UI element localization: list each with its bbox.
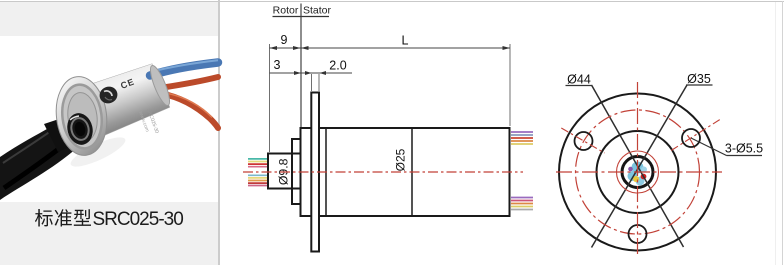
rotor/stator divider + extension line: [300, 4, 302, 128]
red inner circle: [617, 151, 659, 193]
product photo: [0, 60, 218, 200]
caption chinese glyphs 标准型: [35, 209, 91, 227]
black cable: [0, 120, 78, 200]
Ø35 underline: [686, 84, 713, 86]
hole top-right: [682, 129, 700, 147]
flange extension line right: [318, 74, 320, 91]
red radial right hole: [671, 118, 722, 150]
dimension line 3 / 2.0: [270, 72, 353, 74]
arrow 2.0 right: [320, 71, 327, 75]
arrow 2.0 left: [305, 71, 312, 75]
wire bundle dots: [628, 162, 648, 186]
right wires lower: [511, 198, 533, 210]
front view drawing: [556, 72, 763, 256]
cylinder body: [76, 64, 170, 139]
red vertical center line: [637, 82, 639, 256]
red wire lower: [161, 94, 218, 129]
dimension line 9 / L: [270, 47, 511, 49]
dark hub bearing: [64, 110, 96, 147]
hub circle: [622, 157, 653, 188]
arrow right L: [503, 46, 511, 50]
svg-text:Ø35: Ø35: [687, 72, 711, 86]
rotor/stator underline: [273, 16, 330, 18]
extension line right: [509, 44, 511, 126]
left wires upper: [248, 159, 268, 167]
blue wire: [150, 63, 218, 76]
flange extension line left: [311, 74, 313, 91]
Ø44 underline: [566, 85, 593, 87]
outer circle Ø44: [559, 94, 716, 251]
body outline: [301, 128, 510, 216]
hole top-left: [575, 132, 593, 150]
svg-text:Ø44: Ø44: [567, 73, 591, 87]
leader 3-Ø5.5: [691, 138, 727, 156]
arrow right 9: [293, 46, 301, 50]
hole bottom: [629, 225, 647, 243]
swirl logo: [97, 84, 120, 106]
cable boot: [44, 118, 76, 152]
arrow left 9: [270, 46, 278, 50]
body divider: [411, 128, 413, 216]
right wires upper: [511, 132, 533, 144]
leader line Ø44: [592, 85, 684, 247]
end cap: [147, 64, 173, 108]
red horizontal center line: [556, 171, 722, 173]
svg-text:L: L: [402, 34, 409, 48]
side center line: [243, 171, 523, 173]
3-Ø5.5 underline: [727, 155, 763, 157]
svg-text:3: 3: [274, 58, 281, 72]
flange disc: [52, 74, 111, 159]
body face line: [325, 128, 327, 216]
red radial left hole: [561, 128, 604, 153]
left wires lower: [248, 175, 268, 185]
svg-text:SRC025-30: SRC025-30: [93, 209, 184, 230]
shaft rect Ø9.8: [268, 154, 301, 189]
svg-text:Stator: Stator: [303, 5, 332, 17]
svg-text:Ø25: Ø25: [394, 148, 408, 171]
arrow left L: [301, 46, 309, 50]
svg-text:9: 9: [281, 33, 288, 47]
arrow 3 right: [294, 71, 301, 75]
svg-text:Rotor: Rotor: [273, 5, 299, 17]
extension line left: [269, 44, 271, 152]
shadow: [67, 132, 128, 172]
middle circle: [597, 131, 679, 213]
side view drawing: [243, 4, 533, 252]
red wire upper: [163, 77, 218, 88]
red bolt circle: [576, 110, 700, 234]
flange front: [311, 93, 319, 252]
svg-text:2.0: 2.0: [329, 59, 346, 73]
svg-text:3-Ø5.5: 3-Ø5.5: [725, 142, 763, 156]
collar: [292, 139, 301, 204]
leader line Ø35: [592, 85, 688, 248]
